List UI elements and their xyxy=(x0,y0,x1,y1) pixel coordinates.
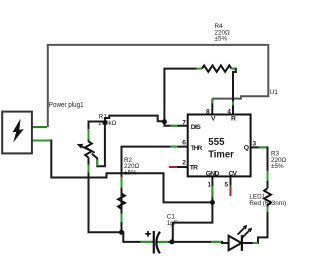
svg-text:2: 2 xyxy=(182,160,186,167)
potentiometer R1 zigzag xyxy=(85,141,92,157)
wire CV pin 5 stub red xyxy=(230,176,232,185)
potentiometer R1 wiper tap to node A xyxy=(92,123,105,167)
potentiometer R1 bottom lead to node C xyxy=(89,158,122,233)
svg-text:555: 555 xyxy=(208,136,224,148)
svg-text:3: 3 xyxy=(253,141,257,148)
svg-text:DIS: DIS xyxy=(191,124,201,131)
svg-text:Timer: Timer xyxy=(208,148,234,160)
svg-text:CV: CV xyxy=(229,171,238,178)
svg-text:8: 8 xyxy=(206,108,210,115)
junction node D xyxy=(170,239,175,244)
svg-text:100kΩ: 100kΩ xyxy=(98,120,117,127)
wire TR pin 2 stub red xyxy=(177,166,188,168)
svg-text:1μF: 1μF xyxy=(167,220,178,227)
svg-text:6: 6 xyxy=(182,140,186,147)
svg-text:U1: U1 xyxy=(270,89,279,96)
power plug lightning bolt xyxy=(12,119,23,143)
555 timer U1 body xyxy=(188,115,251,177)
wire ground bus down to bottom rail xyxy=(173,202,213,242)
junction node A xyxy=(103,120,108,125)
svg-text:5: 5 xyxy=(225,181,229,188)
svg-text:±5%: ±5% xyxy=(271,163,284,170)
LED arrow 1 xyxy=(238,228,245,235)
svg-text:±5%: ±5% xyxy=(215,36,228,43)
wire GND pin stub xyxy=(211,177,213,202)
wire THR pin to R2 top corner xyxy=(122,147,188,233)
wire bottom rail left: node C to C1 + xyxy=(122,232,154,242)
capacitor C1 xyxy=(153,231,155,254)
wire R4 right to pin 4 R xyxy=(232,69,236,115)
svg-text:7: 7 xyxy=(182,119,186,126)
junction GND node xyxy=(210,200,215,205)
resistor R3 zigzag xyxy=(264,188,271,205)
wire R4 left vertical from node B xyxy=(164,69,196,122)
resistor R4 zigzag xyxy=(202,65,231,71)
wire plug- to ground bus xyxy=(50,141,212,203)
svg-text:TR: TR xyxy=(190,164,198,171)
svg-text:V: V xyxy=(211,116,216,123)
wire node D to LED anode xyxy=(172,242,229,243)
LED cathode bar xyxy=(241,235,243,251)
LED arrow 2 xyxy=(243,231,250,238)
potentiometer R1 top lead xyxy=(89,122,106,142)
junction node B xyxy=(162,119,167,124)
resistor R2 zigzag xyxy=(118,194,125,209)
wire C1 to node D xyxy=(157,241,172,243)
svg-text:4: 4 xyxy=(227,108,231,115)
LED LED1 triangle xyxy=(229,236,242,251)
wire plug- terminal green xyxy=(32,140,50,142)
wire R3 top to Q pin xyxy=(251,147,268,188)
wire node B to DIS pin 7 xyxy=(164,122,187,126)
potentiometer R1 arrow xyxy=(81,146,95,152)
svg-text:±5%: ±5% xyxy=(124,170,137,177)
wire pin 8 V stub xyxy=(211,99,213,115)
wire plug+ terminal green xyxy=(32,126,47,128)
wire VCC rail gray: plug+ up, across top, down right side, to pin 8 V xyxy=(48,45,268,127)
svg-text:Power plug1: Power plug1 xyxy=(49,102,84,109)
power plug1 body xyxy=(2,112,32,154)
svg-text:R: R xyxy=(231,116,236,123)
svg-text:Q: Q xyxy=(244,145,249,152)
wire LED cathode to R3 bottom xyxy=(242,205,268,243)
junction node C xyxy=(119,230,124,235)
svg-text:1: 1 xyxy=(208,181,212,188)
C1 plus sign xyxy=(145,231,151,237)
wire node A staircase to node B xyxy=(105,116,164,123)
svg-text:THR: THR xyxy=(191,145,203,152)
svg-text:GND: GND xyxy=(206,171,220,178)
